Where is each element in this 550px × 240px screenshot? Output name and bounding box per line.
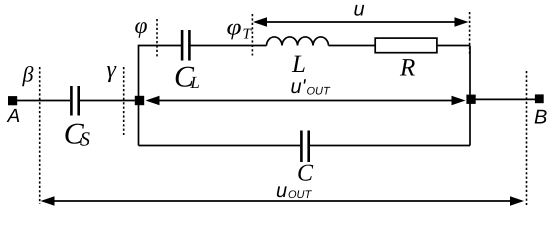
inductor L xyxy=(267,37,329,46)
capacitor CL xyxy=(182,30,189,61)
arrow u xyxy=(253,17,469,26)
dashed line gamma xyxy=(123,67,125,135)
svg-text:A: A xyxy=(7,106,21,127)
svg-text:L: L xyxy=(189,73,199,92)
arrow uout xyxy=(41,196,525,205)
wire resistor to right rail xyxy=(437,45,470,47)
svg-text:u': u' xyxy=(291,76,307,98)
resistor R xyxy=(375,38,437,53)
svg-text:T: T xyxy=(243,27,253,43)
dashed line beta xyxy=(39,67,41,204)
svg-text:L: L xyxy=(291,51,306,78)
wire node2 to B xyxy=(475,98,536,100)
arrow u'out xyxy=(146,96,466,105)
svg-text:S: S xyxy=(80,129,90,151)
capacitor CS xyxy=(71,86,78,116)
svg-text:C: C xyxy=(297,161,314,187)
svg-text:B: B xyxy=(534,107,547,129)
dashed line B xyxy=(526,71,528,205)
node terminal B xyxy=(535,94,544,103)
dashed line phiT xyxy=(251,14,253,56)
wire CS to node1 xyxy=(80,100,136,102)
node 2 xyxy=(466,95,475,104)
wire A to CS xyxy=(16,100,70,102)
svg-text:R: R xyxy=(399,54,415,81)
svg-text:φ: φ xyxy=(227,15,242,40)
svg-text:u: u xyxy=(276,180,287,202)
svg-text:OUT: OUT xyxy=(288,189,313,201)
dashed line u right xyxy=(469,12,471,56)
svg-text:φ: φ xyxy=(135,13,148,38)
dashed line phi xyxy=(156,19,158,57)
wire bottom left xyxy=(139,145,301,147)
node 1 xyxy=(135,96,144,105)
wire right rail xyxy=(469,46,471,146)
wire inductor to resistor xyxy=(329,45,376,47)
wire left rail xyxy=(139,46,182,146)
node terminal A xyxy=(8,96,17,105)
svg-text:u: u xyxy=(354,0,365,20)
svg-text:γ: γ xyxy=(107,57,117,83)
capacitor C xyxy=(301,131,308,163)
svg-text:β: β xyxy=(22,62,34,87)
svg-text:OUT: OUT xyxy=(307,85,332,97)
wire CL to inductor xyxy=(191,45,267,47)
wire bottom right xyxy=(310,145,470,147)
